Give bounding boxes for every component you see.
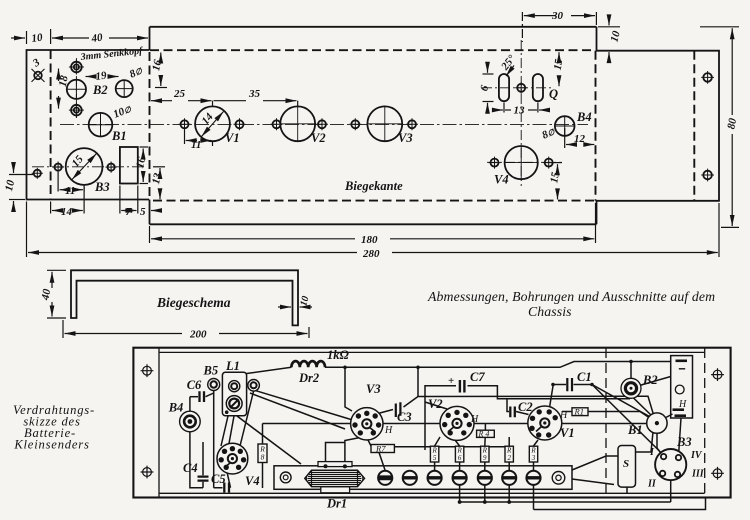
- eyelet Dr1 plate: [280, 472, 291, 483]
- left flap outline: [27, 50, 150, 200]
- svg-text:C3: C3: [397, 410, 412, 424]
- svg-text:180: 180: [361, 234, 378, 246]
- wire strip to S upper: [572, 456, 618, 470]
- switch S: [618, 446, 636, 488]
- resistor column R6: [455, 446, 463, 462]
- small hole right of V4: [543, 157, 555, 169]
- tube hole V2: [280, 106, 315, 141]
- choke Dr1 top bracket: [318, 462, 352, 467]
- screw hole wiring bottom-right: [711, 467, 724, 480]
- wire C1 to B3: [592, 385, 664, 456]
- hole senkkopf top: [69, 60, 84, 75]
- svg-text:C5: C5: [211, 472, 226, 486]
- tube hole V1: [195, 106, 230, 141]
- wire B2 to B1: [633, 398, 652, 416]
- tube hole V4: [505, 146, 538, 179]
- wire battery to B3: [679, 418, 682, 456]
- dim 10 right flap: [598, 16, 620, 61]
- capacitor C1: [567, 378, 572, 391]
- bend line right chassis edge: [595, 51, 597, 201]
- jack B2: [621, 378, 641, 398]
- dim 11 B3: [58, 172, 84, 192]
- svg-text:Biegeschema: Biegeschema: [156, 295, 231, 310]
- dim 12 B4: [565, 128, 595, 148]
- eyelet strip right: [552, 472, 565, 485]
- wire B2 to battery: [640, 377, 671, 386]
- svg-text:6: 6: [478, 84, 491, 93]
- wire bundle to V3 lower: [250, 393, 345, 429]
- small hole left of V2: [271, 118, 283, 130]
- lug terminals: [378, 471, 541, 485]
- capacitor C6: [200, 391, 205, 402]
- dim 7 bottom: [120, 186, 138, 214]
- bend line left chassis edge: [149, 52, 151, 200]
- wire strip to S lower: [572, 479, 614, 485]
- svg-text:V4: V4: [245, 474, 260, 488]
- svg-text:V1: V1: [560, 426, 575, 440]
- svg-text:2: 2: [507, 454, 511, 462]
- svg-text:IV: IV: [690, 450, 703, 461]
- dim 18: [58, 69, 60, 109]
- dim 16 cutout: [140, 147, 149, 184]
- slot right: [533, 74, 543, 101]
- hole corner bottom left: [32, 168, 43, 179]
- dim 13 left: [153, 167, 165, 199]
- resistor column R5: [430, 446, 438, 462]
- wire C4 vertical: [202, 442, 204, 488]
- svg-text:C1: C1: [577, 370, 592, 384]
- capacitor C3: [396, 402, 401, 417]
- inner left edge: [158, 348, 160, 498]
- wire R5 column: [435, 437, 440, 471]
- center axis line horizontal: [60, 123, 588, 125]
- svg-text:L1: L1: [225, 359, 240, 373]
- battery holder box: [671, 356, 693, 418]
- svg-text:V2: V2: [311, 131, 326, 145]
- svg-text:280: 280: [362, 248, 380, 260]
- dim 10 lower-left: [9, 163, 33, 211]
- svg-text:11: 11: [191, 139, 201, 151]
- svg-text:14: 14: [61, 206, 73, 218]
- dim 15 slots: [558, 52, 560, 86]
- arrow diameter B3: [72, 154, 97, 180]
- wire B4 ground stem: [190, 432, 203, 488]
- wire V1 to C1: [549, 385, 592, 410]
- svg-text:S: S: [623, 458, 629, 470]
- svg-text:10: 10: [298, 295, 311, 308]
- axis line B2 column: [75, 58, 77, 118]
- Biegeschema bent profile: [71, 270, 298, 325]
- small hole right of V2: [316, 118, 328, 130]
- wire C6 left: [190, 396, 198, 398]
- resistor R8: [258, 444, 267, 463]
- screw hole wiring bottom-left: [141, 466, 154, 479]
- choke Dr1 lead dots: [324, 464, 328, 468]
- hole B3: [66, 148, 103, 185]
- svg-text:7: 7: [126, 206, 132, 218]
- wire B4 vertical: [189, 397, 191, 413]
- svg-text:V1: V1: [225, 131, 240, 145]
- wire C5 row: [214, 472, 231, 488]
- junction dots: [343, 360, 633, 504]
- chassis outline top drawing: [27, 27, 720, 225]
- resistor column R3: [529, 446, 537, 462]
- svg-text:Abmessungen, Bohrungen und Aus: Abmessungen, Bohrungen und Ausschnitte a…: [427, 289, 715, 304]
- svg-text:R7: R7: [375, 444, 386, 454]
- small hole between slots: [515, 82, 527, 94]
- wire terminal5 drop: [484, 485, 486, 502]
- resistor column R9: [481, 446, 489, 462]
- dim 13 slots: [494, 103, 548, 113]
- svg-text:B4: B4: [168, 401, 184, 415]
- svg-text:18: 18: [57, 74, 71, 88]
- wire Dr1 lead right: [345, 435, 373, 466]
- caption Verdrahtungsskizze: [13, 403, 95, 452]
- wire R3 column: [534, 440, 539, 471]
- dim 10 top-left: [11, 29, 51, 44]
- small hole left of V1: [179, 118, 191, 130]
- terminal L1 right: [248, 380, 260, 392]
- resistor R1: [572, 408, 588, 416]
- dim 35: [214, 101, 298, 107]
- wire B3 drop: [670, 481, 672, 503]
- wire bottom bus 1: [460, 501, 671, 503]
- svg-text:8∅: 8∅: [128, 64, 145, 81]
- svg-text:B1: B1: [627, 423, 643, 437]
- resistor R4: [477, 430, 495, 437]
- tube socket V1: [528, 406, 562, 440]
- bend line bottom Biegekante: [153, 200, 596, 202]
- svg-text:16: 16: [134, 156, 148, 170]
- svg-text:V3: V3: [398, 131, 413, 145]
- small hole right of V3: [406, 118, 418, 130]
- svg-text:Kleinsenders: Kleinsenders: [13, 438, 89, 452]
- svg-text:19: 19: [95, 69, 108, 82]
- dim 14 bottom: [51, 187, 85, 214]
- top step left: [149, 27, 151, 50]
- dim 200 profile: [63, 320, 309, 338]
- svg-text:H: H: [470, 414, 479, 425]
- dim 15 V4: [551, 163, 562, 200]
- wire R6 column: [455, 440, 460, 471]
- choke Dr1 bottom bracket: [321, 487, 350, 493]
- small hole left of V3: [349, 118, 361, 130]
- wire bottom bus 2: [534, 498, 706, 510]
- wire R9 column: [484, 462, 486, 471]
- compartment divider dashed: [605, 348, 607, 497]
- wire L1 pin to V4: [240, 391, 254, 446]
- wire V2 top diag: [425, 402, 447, 409]
- capacitor C4: [198, 477, 209, 481]
- svg-text:B2: B2: [92, 83, 108, 97]
- svg-text:Dr1: Dr1: [326, 497, 347, 511]
- wire C7 loop: [425, 386, 630, 450]
- small hole left of V4: [489, 157, 501, 169]
- svg-text:10: 10: [608, 29, 623, 43]
- axis line V4 row: [487, 161, 562, 163]
- wire C3 link: [376, 396, 655, 418]
- dim 19: [86, 76, 119, 78]
- resistor R7: [371, 445, 394, 453]
- svg-text:I: I: [649, 447, 655, 458]
- capacitor C7: [460, 380, 465, 393]
- axis line slots row: [482, 87, 554, 89]
- hole left of B3: [53, 162, 64, 173]
- bottom step left: [149, 200, 151, 225]
- svg-text:C4: C4: [183, 461, 198, 475]
- hole senkkopf bottom: [69, 103, 84, 118]
- svg-text:10: 10: [3, 179, 17, 193]
- inner bottom edge: [159, 492, 705, 494]
- svg-text:Biegekante: Biegekante: [344, 179, 403, 193]
- svg-text:H: H: [678, 399, 687, 410]
- dim 30 top-right: [522, 12, 596, 42]
- hole B1: [89, 113, 113, 137]
- battery B4: [180, 411, 201, 432]
- svg-text:3: 3: [531, 454, 536, 462]
- dim 40 top: [52, 37, 148, 39]
- svg-text:B5: B5: [203, 364, 219, 378]
- arrow diameter V1: [202, 112, 224, 137]
- cutout rectangle: [120, 147, 138, 184]
- leader 25deg: [506, 66, 514, 77]
- screw hole wiring top-right: [711, 368, 724, 381]
- wire battery to B1: [663, 414, 673, 419]
- svg-text:+: +: [448, 375, 454, 387]
- jack B1: [647, 413, 667, 433]
- svg-text:9: 9: [483, 454, 487, 462]
- svg-text:3mm Senkkopf: 3mm Senkkopf: [79, 45, 144, 63]
- hole 8mm right of B2: [116, 80, 133, 97]
- resistor column R2: [505, 446, 513, 462]
- svg-text:B2: B2: [642, 373, 658, 387]
- svg-text:1kΩ: 1kΩ: [327, 348, 350, 362]
- hole B2: [67, 80, 86, 99]
- dim 16 upper: [155, 53, 167, 88]
- tube socket V3: [351, 408, 383, 440]
- chassis outer rect: [133, 348, 730, 498]
- svg-text:6: 6: [458, 454, 462, 462]
- right flap divider dashed: [704, 348, 706, 497]
- wire B1 to B3: [657, 434, 663, 457]
- svg-text:H: H: [384, 425, 393, 436]
- svg-text:8: 8: [261, 453, 265, 462]
- svg-text:3: 3: [30, 56, 43, 70]
- svg-text:10∅: 10∅: [112, 103, 134, 121]
- wire bus drop C3: [417, 367, 419, 396]
- wire S bottom: [626, 487, 628, 493]
- svg-text:25: 25: [173, 88, 186, 100]
- svg-text:B4: B4: [576, 110, 592, 124]
- tube hole V3: [367, 106, 402, 141]
- tube socket V4: [217, 443, 248, 474]
- capacitor C5: [224, 483, 229, 493]
- center band top edge: [150, 26, 597, 28]
- wire bus to B2: [630, 362, 632, 379]
- svg-text:15: 15: [552, 58, 566, 71]
- dim 5 bottom: [151, 210, 158, 212]
- dim 25: [151, 101, 213, 107]
- svg-text:12: 12: [574, 133, 586, 145]
- coil L1: [222, 372, 246, 415]
- svg-text:V2: V2: [428, 397, 443, 411]
- bend line right flap: [693, 51, 695, 201]
- svg-text:200: 200: [189, 329, 207, 341]
- wire C1 to B1: [592, 385, 650, 417]
- svg-text:35: 35: [248, 88, 261, 100]
- right flap outline: [597, 27, 720, 225]
- svg-text:5: 5: [140, 206, 146, 218]
- dim 280: [27, 202, 720, 258]
- svg-text:II: II: [647, 479, 657, 490]
- dim 11 under V1: [185, 130, 213, 146]
- svg-text:40: 40: [90, 31, 104, 45]
- svg-text:H: H: [559, 410, 568, 421]
- wire R7 links: [368, 440, 508, 470]
- slot left: [499, 74, 509, 101]
- axis line slots V4 column: [520, 40, 522, 186]
- svg-text:5: 5: [433, 454, 437, 462]
- svg-text:V4: V4: [494, 173, 509, 187]
- dim 80 right: [700, 27, 739, 228]
- hole right of B3: [106, 162, 117, 173]
- screw hole right flap top: [701, 71, 714, 84]
- bend line top Biegekante: [150, 49, 596, 51]
- dim 40 profile: [47, 270, 66, 318]
- wire bus drop V3: [345, 367, 352, 411]
- wire L1 to Dr2: [247, 367, 292, 373]
- wire C6 right: [206, 391, 214, 488]
- svg-text:C6: C6: [187, 378, 202, 392]
- svg-text:13: 13: [150, 172, 164, 186]
- svg-text:11: 11: [65, 185, 75, 197]
- wire Dr1 lead left: [326, 443, 345, 467]
- svg-text:Chassis: Chassis: [528, 304, 572, 319]
- wire C2 link: [516, 412, 529, 415]
- capacitor C2: [510, 407, 515, 418]
- svg-text:Dr2: Dr2: [298, 371, 319, 385]
- svg-text:15: 15: [548, 171, 562, 184]
- svg-text:C2: C2: [518, 400, 533, 414]
- choke Dr1 body: [305, 470, 365, 486]
- wire B1 drop to S: [636, 432, 654, 452]
- tube socket V2: [440, 406, 474, 440]
- wire R8 drop: [262, 424, 264, 489]
- dim 6 slot: [483, 63, 494, 113]
- dim 180: [150, 203, 596, 243]
- wire terminal7 drop: [533, 485, 535, 510]
- choke Dr2: [291, 361, 325, 367]
- wire terminal6 drop: [508, 485, 510, 502]
- wire L1 to V4 a: [221, 416, 228, 446]
- wire B5 bundle to V3: [254, 390, 351, 420]
- hole 3mm corner: [32, 69, 45, 82]
- wire R4 link: [484, 424, 487, 447]
- terminal strip plate: [274, 466, 572, 490]
- svg-text:III: III: [691, 469, 705, 480]
- svg-text:Q: Q: [549, 87, 558, 101]
- svg-text:B1: B1: [111, 129, 127, 143]
- dim 10 profile: [278, 306, 312, 308]
- inner top edge: [159, 351, 705, 353]
- svg-text:R1: R1: [574, 407, 584, 417]
- wire R1 link: [562, 412, 649, 418]
- svg-text:13: 13: [514, 105, 526, 117]
- svg-text:C7: C7: [470, 370, 485, 384]
- screw hole right flap bottom: [701, 169, 714, 182]
- hole B4: [555, 116, 575, 136]
- wiring sketch chassis plate: [133, 348, 730, 498]
- socket B3: [655, 449, 686, 480]
- svg-text:B3: B3: [676, 435, 692, 449]
- wire L1 to V4 b: [228, 416, 234, 449]
- wire top bus: [325, 362, 671, 368]
- svg-text:30: 30: [551, 10, 564, 22]
- svg-text:V3: V3: [366, 382, 381, 396]
- center band bottom edge: [150, 223, 597, 225]
- screw hole wiring top-left: [141, 364, 154, 377]
- svg-text:R 4: R 4: [478, 429, 490, 438]
- bend line left flap: [50, 50, 52, 200]
- wire L1 to Dr1: [237, 416, 301, 464]
- small hole right of V1: [234, 118, 246, 130]
- label 80: [725, 116, 739, 133]
- svg-text:40: 40: [39, 288, 53, 302]
- svg-text:10: 10: [31, 31, 44, 44]
- wire terminal4 drop: [459, 485, 461, 502]
- wire R2 column: [508, 437, 510, 471]
- wire heater bus: [263, 423, 647, 425]
- svg-text:B3: B3: [94, 180, 110, 194]
- svg-text:16: 16: [150, 58, 164, 72]
- svg-text:25°: 25°: [498, 52, 518, 73]
- axis line B3 row: [32, 166, 147, 168]
- terminal B5: [208, 379, 220, 391]
